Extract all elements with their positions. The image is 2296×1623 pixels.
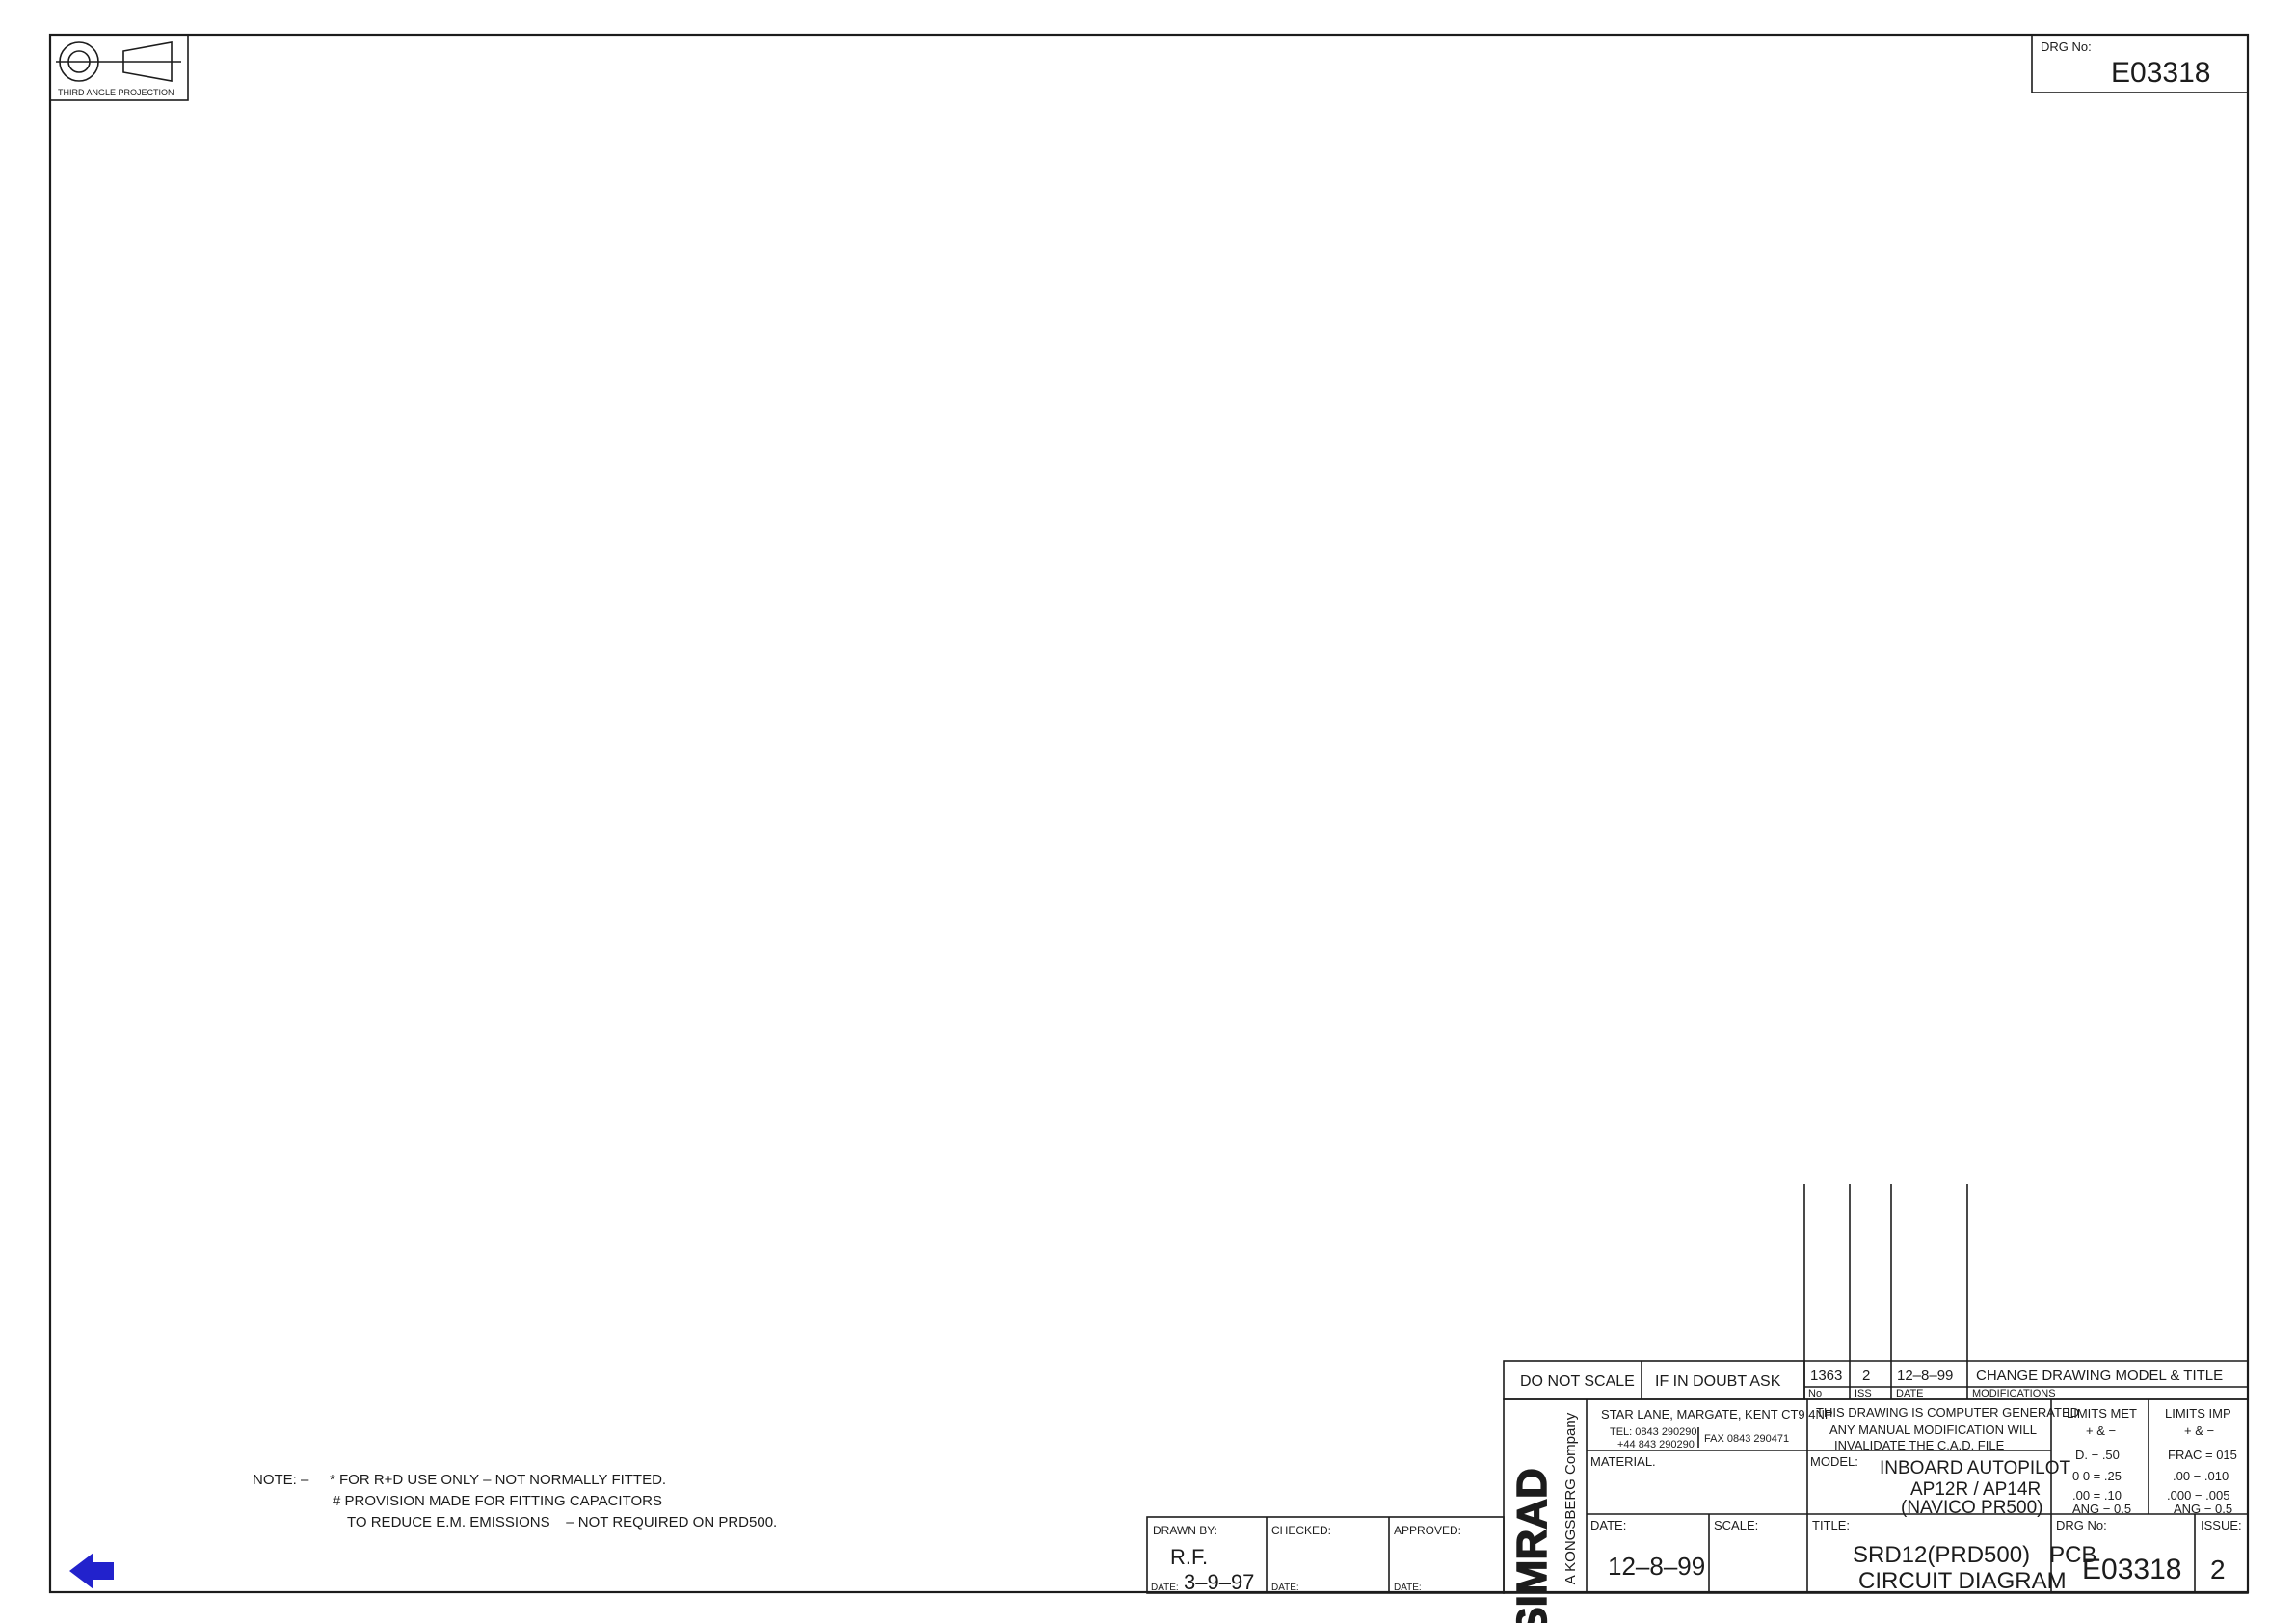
svg-text:TITLE:: TITLE: xyxy=(1812,1518,1850,1532)
svg-text:+ & −: + & − xyxy=(2184,1423,2214,1438)
svg-text:3–9–97: 3–9–97 xyxy=(1184,1570,1254,1594)
svg-text:CIRCUIT DIAGRAM: CIRCUIT DIAGRAM xyxy=(1858,1568,2067,1594)
svg-text:DATE: DATE xyxy=(1896,1388,1924,1399)
svg-text:0 0 = .25: 0 0 = .25 xyxy=(2072,1469,2122,1483)
svg-text:DATE:: DATE: xyxy=(1590,1518,1626,1532)
svg-text:ANY MANUAL MODIFICATION WILL: ANY MANUAL MODIFICATION WILL xyxy=(1829,1423,2037,1437)
svg-text:DATE:: DATE: xyxy=(1394,1583,1422,1593)
svg-text:FRAC = 015: FRAC = 015 xyxy=(2168,1448,2237,1462)
svg-text:IF IN DOUBT ASK: IF IN DOUBT ASK xyxy=(1655,1373,1781,1390)
notes xyxy=(253,1472,777,1530)
svg-text:INBOARD AUTOPILOT: INBOARD AUTOPILOT xyxy=(1880,1458,2071,1478)
svg-text:DRG No:: DRG No: xyxy=(2056,1518,2107,1532)
svg-text:SCALE:: SCALE: xyxy=(1714,1518,1758,1532)
svg-text:LIMITS IMP: LIMITS IMP xyxy=(2165,1406,2231,1421)
svg-text:# PROVISION MADE FOR FITTING C: # PROVISION MADE FOR FITTING CAPACITORS xyxy=(333,1493,662,1509)
svg-text:THIRD ANGLE PROJECTION: THIRD ANGLE PROJECTION xyxy=(58,88,174,97)
svg-text:NOTE: –: NOTE: – xyxy=(253,1472,309,1488)
third angle projection box xyxy=(50,35,188,100)
svg-text:.000 − .005: .000 − .005 xyxy=(2167,1488,2229,1503)
svg-text:MODIFICATIONS: MODIFICATIONS xyxy=(1972,1388,2056,1399)
svg-text:CHECKED:: CHECKED: xyxy=(1271,1524,1331,1537)
svg-text:INVALIDATE THE C.A.D. FILE: INVALIDATE THE C.A.D. FILE xyxy=(1834,1438,2005,1452)
svg-text:1363: 1363 xyxy=(1810,1368,1842,1384)
svg-text:TEL: 0843 290290: TEL: 0843 290290 xyxy=(1610,1426,1697,1438)
svg-text:FAX 0843 290471: FAX 0843 290471 xyxy=(1704,1433,1789,1445)
svg-text:SIMRAD: SIMRAD xyxy=(1508,1468,1556,1623)
svg-text:MATERIAL.: MATERIAL. xyxy=(1590,1454,1656,1469)
svg-text:A KONGSBERG Company: A KONGSBERG Company xyxy=(1562,1412,1579,1584)
svg-text:2: 2 xyxy=(1862,1368,1870,1384)
blue navigation arrow xyxy=(69,1553,114,1589)
svg-text:AP12R / AP14R: AP12R / AP14R xyxy=(1910,1479,2041,1500)
svg-text:* FOR R+D USE ONLY – NOT NORMA: * FOR R+D USE ONLY – NOT NORMALLY FITTED… xyxy=(330,1472,666,1488)
svg-text:ISSUE:: ISSUE: xyxy=(2201,1518,2242,1532)
svg-text:TO REDUCE E.M. EMISSIONS –: TO REDUCE E.M. EMISSIONS – NOT REQUIRED … xyxy=(347,1514,777,1530)
svg-text:DATE:: DATE: xyxy=(1151,1583,1179,1593)
svg-text:CHANGE DRAWING MODEL & TITLE: CHANGE DRAWING MODEL & TITLE xyxy=(1976,1368,2223,1384)
drawn-by block xyxy=(1147,1517,1504,1594)
svg-text:D. − .50: D. − .50 xyxy=(2075,1448,2120,1462)
DRG No box top right xyxy=(2032,35,2248,93)
svg-text:.00 − .010: .00 − .010 xyxy=(2173,1469,2229,1483)
svg-text:DRAWN BY:: DRAWN BY: xyxy=(1153,1524,1217,1537)
svg-text:ANG − 0.5: ANG − 0.5 xyxy=(2072,1502,2131,1516)
svg-text:ISS: ISS xyxy=(1855,1388,1872,1399)
title block xyxy=(1504,1184,2248,1623)
svg-text:R.F.: R.F. xyxy=(1170,1545,1208,1569)
svg-text:APPROVED:: APPROVED: xyxy=(1394,1524,1461,1537)
svg-text:STAR LANE, MARGATE, KENT CT9 4: STAR LANE, MARGATE, KENT CT9 4NP xyxy=(1601,1407,1833,1422)
svg-text:.00 = .10: .00 = .10 xyxy=(2072,1488,2122,1503)
svg-text:No: No xyxy=(1808,1388,1822,1399)
svg-text:ANG − 0.5: ANG − 0.5 xyxy=(2174,1502,2232,1516)
svg-text:E03318: E03318 xyxy=(2082,1554,2181,1585)
svg-text:2: 2 xyxy=(2210,1555,2226,1584)
svg-text:12–8–99: 12–8–99 xyxy=(1897,1368,1953,1384)
svg-text:DRG No:: DRG No: xyxy=(2041,40,2092,54)
svg-text:SRD12(PRD500) PCB: SRD12(PRD500) PCB xyxy=(1853,1542,2096,1568)
svg-text:MODEL:: MODEL: xyxy=(1810,1454,1858,1469)
svg-text:E03318: E03318 xyxy=(2111,57,2210,89)
svg-text:THIS DRAWING IS COMPUTER GENER: THIS DRAWING IS COMPUTER GENERATED xyxy=(1816,1405,2079,1420)
svg-text:12–8–99: 12–8–99 xyxy=(1608,1552,1705,1581)
svg-text:+44 843 290290: +44 843 290290 xyxy=(1617,1439,1695,1450)
svg-text:+ & −: + & − xyxy=(2086,1423,2116,1438)
svg-text:(NAVICO PR500): (NAVICO PR500) xyxy=(1901,1498,2042,1518)
svg-text:DO NOT SCALE: DO NOT SCALE xyxy=(1520,1373,1635,1390)
svg-text:DATE:: DATE: xyxy=(1271,1583,1299,1593)
svg-text:LIMITS MET: LIMITS MET xyxy=(2067,1406,2137,1421)
